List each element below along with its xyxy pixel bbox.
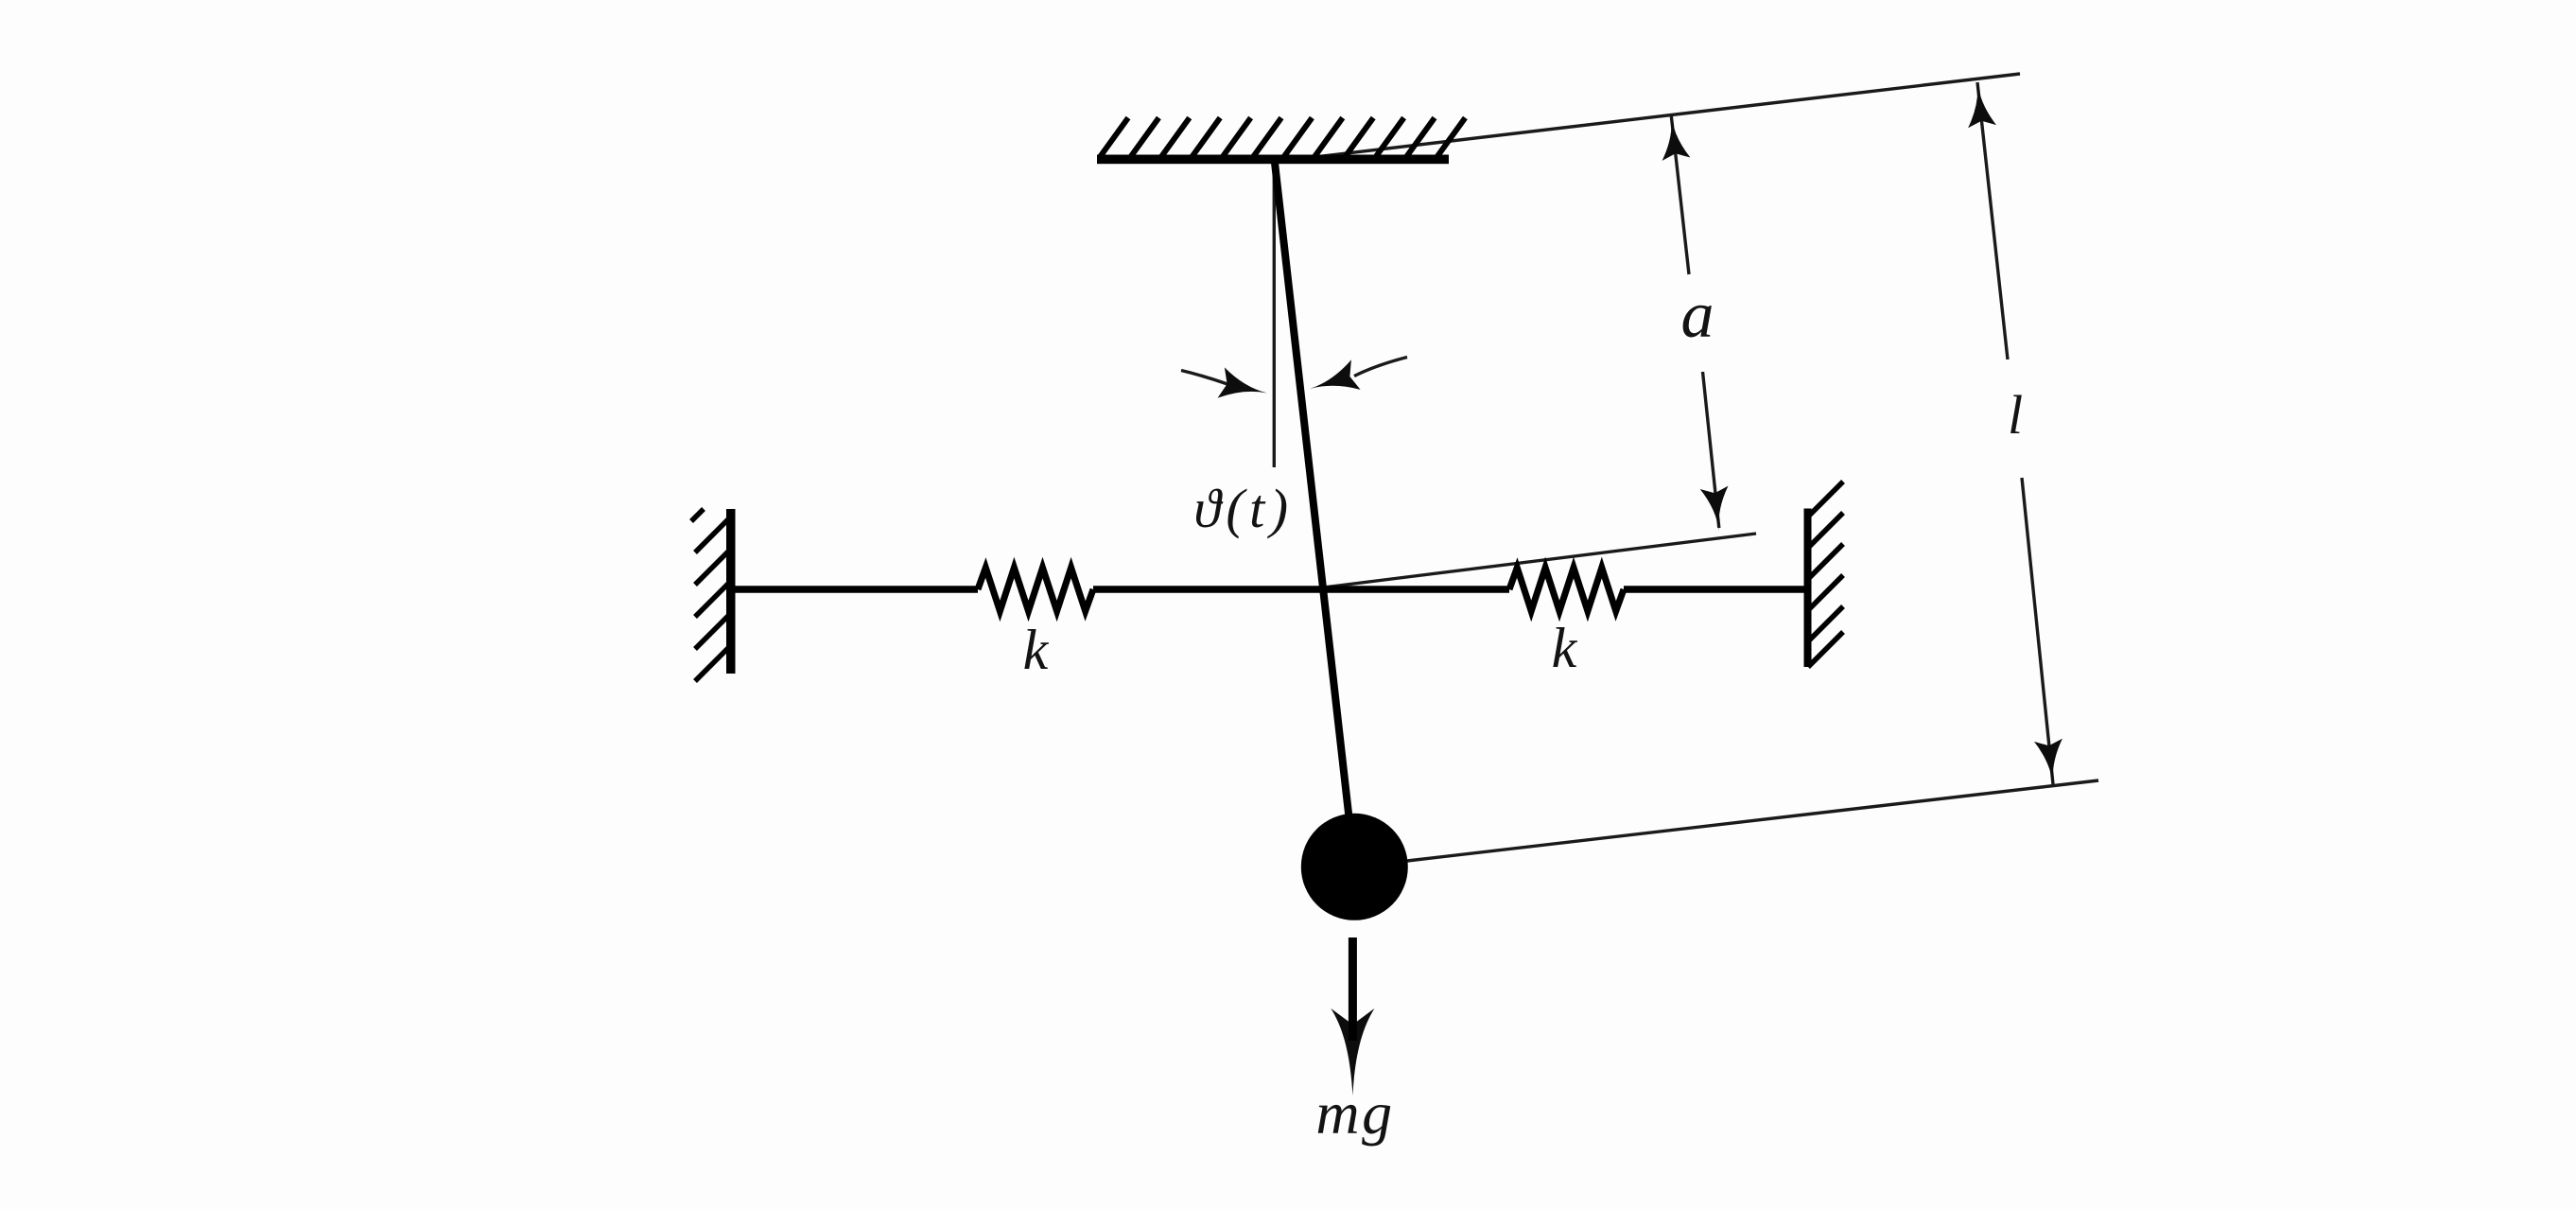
svg-text:ϑ(t): ϑ(t)	[1193, 478, 1293, 539]
svg-text:k: k	[1552, 617, 1578, 679]
svg-text:mg: mg	[1315, 1079, 1394, 1147]
svg-text:a: a	[1681, 279, 1714, 352]
svg-text:l: l	[2008, 384, 2023, 446]
svg-text:k: k	[1023, 619, 1050, 681]
